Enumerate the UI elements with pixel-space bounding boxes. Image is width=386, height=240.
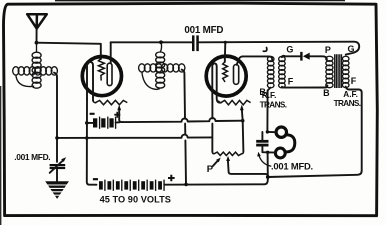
node phones top <box>266 130 269 133</box>
wire RF secondary G to diode <box>282 56 300 57</box>
wire R1 wiper arm <box>119 109 122 122</box>
phones headband <box>285 135 295 152</box>
tube V1 plate <box>107 63 112 85</box>
svg-text:G: G <box>348 44 355 54</box>
battery A plus label <box>114 112 120 118</box>
resistor R1 rheostat <box>93 100 127 104</box>
diode D1 crystal detector <box>300 52 302 61</box>
battery B 45 to 90 volts <box>99 180 164 191</box>
wire diode to AF P <box>310 56 327 59</box>
wire V1 filament to A- B- <box>87 99 97 185</box>
node V2 grid tap on rail <box>224 41 227 44</box>
battery A cells <box>93 117 116 129</box>
svg-text:B: B <box>323 88 330 98</box>
phones bottom earpiece <box>275 148 285 158</box>
tube V1 grid <box>98 59 104 81</box>
transformer T2 AF primary <box>326 56 333 87</box>
wire L1 coupling arc <box>16 75 34 87</box>
wire RF secondary F to AF B <box>282 86 328 88</box>
wire L1 right end down to ground node <box>54 73 57 162</box>
battery A minus label <box>90 113 95 115</box>
svg-text:TRANS.: TRANS. <box>260 100 287 109</box>
node rail to ground branch <box>55 136 59 140</box>
wire B+ to output node <box>164 177 267 185</box>
battery B plus label <box>168 175 175 182</box>
node B+ junction <box>184 183 188 187</box>
node A+ to R2 tap <box>241 119 245 123</box>
svg-text:.001 MFD.: .001 MFD. <box>271 161 313 172</box>
wire filament return rail <box>57 135 212 138</box>
wire P pointer arrow <box>213 160 218 166</box>
wire phones top lead <box>267 131 276 133</box>
wire P wiper to output node <box>228 160 268 176</box>
tube V2 filament <box>212 63 220 102</box>
wire phones bottom lead <box>268 152 276 177</box>
inductor L2 vertical coil <box>156 52 165 88</box>
wire AF F to output node <box>268 87 362 177</box>
wire A battery leads <box>87 121 120 124</box>
wire V1 plate lead <box>110 42 112 63</box>
svg-text:45 TO 90 VOLTS: 45 TO 90 VOLTS <box>100 194 171 204</box>
svg-text:G: G <box>286 44 293 54</box>
svg-text:F: F <box>288 77 294 87</box>
transformer T2 AF secondary <box>342 56 349 87</box>
svg-text:A.F.: A.F. <box>343 90 358 99</box>
vacuum tube V1 envelope <box>82 57 121 96</box>
wire RF primary bottom to phones <box>267 88 270 131</box>
wire A+ filament supply <box>122 118 243 122</box>
inductor L1 vertical coil <box>32 43 41 88</box>
svg-text:P: P <box>325 45 331 55</box>
resistor R2 rheostat <box>218 100 250 104</box>
capacitor C4 variable .001 MFD to ground <box>50 164 66 166</box>
svg-text:001 MFD: 001 MFD <box>184 25 223 36</box>
wire V2 plate lead to RF primary <box>237 56 273 64</box>
inductor L1 horizontal coil <box>13 67 58 75</box>
svg-text:F: F <box>351 76 357 86</box>
node output junction <box>266 175 270 179</box>
wire L2 top lead <box>160 42 161 52</box>
wire antenna to V1 grid <box>37 43 101 60</box>
node A- junction <box>85 121 89 125</box>
battery B minus label <box>93 178 98 180</box>
wire C3 pointer arrow <box>259 155 271 166</box>
capacitor C3 phones bypass .001 MFD <box>256 140 268 143</box>
vacuum tube V2 envelope <box>206 56 246 96</box>
capacitor C1 grid condenser 001 MFD <box>192 35 195 51</box>
wire cap to ground <box>56 169 58 181</box>
wire V2 grid lead <box>224 42 227 62</box>
phones top earpiece <box>276 127 286 137</box>
transformer T1 RF primary <box>267 56 274 87</box>
inductor L2 horizontal coil <box>139 64 185 72</box>
wire V2 filament to rail and potentiometer <box>211 99 213 152</box>
tube V2 grid <box>223 62 228 82</box>
transformer T2 core <box>335 54 342 88</box>
wire R2 wiper to A+ and potentiometer <box>242 109 244 152</box>
node L2 tap on rail <box>159 40 163 44</box>
svg-text:R.F.: R.F. <box>262 91 277 100</box>
potentiometer P <box>212 152 243 156</box>
wire V1 plate rail to grid condenser and AF G <box>111 42 360 55</box>
ground <box>45 181 69 199</box>
wire hop above RF primary <box>263 48 267 52</box>
wire L2 right end to B+ <box>182 70 186 185</box>
wire L2 coupling arc <box>142 72 160 90</box>
svg-text:TRANS.: TRANS. <box>334 99 361 108</box>
antenna <box>27 14 47 28</box>
tube V1 filament <box>87 62 93 101</box>
tube V2 plate <box>234 65 239 85</box>
node antenna junction <box>35 41 39 45</box>
svg-text:.001 MFD.: .001 MFD. <box>14 152 50 162</box>
transformer T1 RF secondary <box>279 56 286 87</box>
node phones bottom <box>266 151 269 154</box>
wire antenna lead <box>36 29 38 43</box>
node lower rail junction <box>85 136 89 140</box>
